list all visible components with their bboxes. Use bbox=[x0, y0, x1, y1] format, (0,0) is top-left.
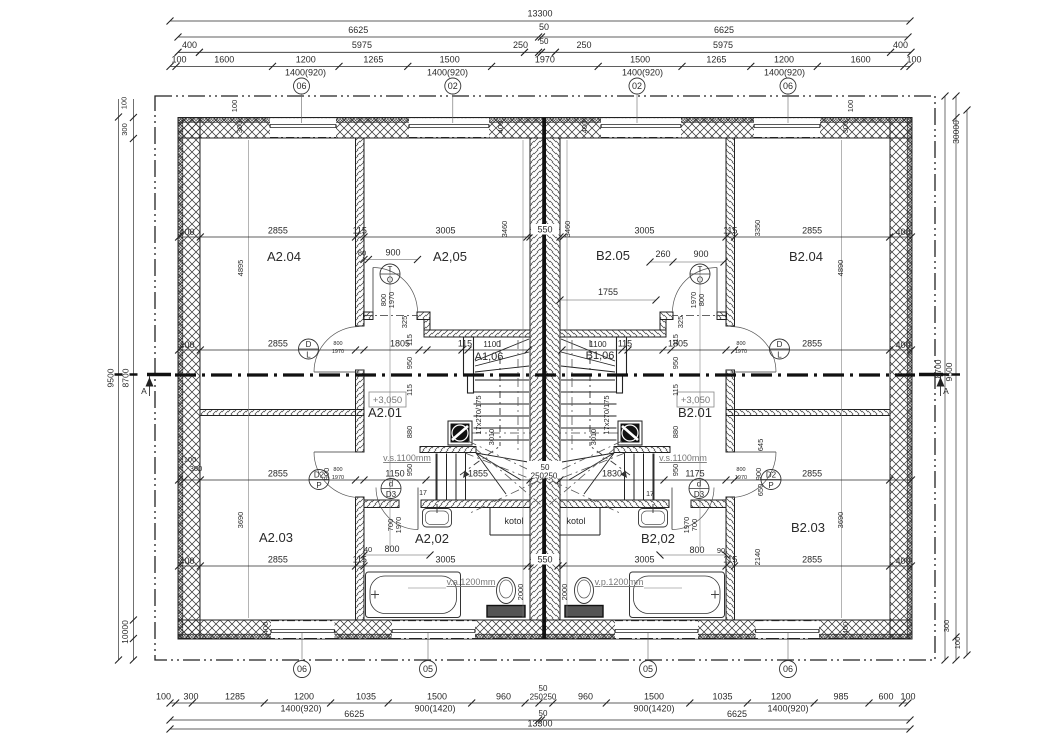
right dim chains bbox=[944, 96, 946, 660]
svg-text:v.a.1200mm: v.a.1200mm bbox=[447, 577, 496, 587]
svg-text:1970: 1970 bbox=[689, 292, 698, 309]
svg-text:4890: 4890 bbox=[836, 260, 845, 277]
top chain detail bbox=[170, 65, 910, 67]
svg-text:1400(920): 1400(920) bbox=[285, 68, 326, 78]
svg-text:550: 550 bbox=[537, 225, 552, 235]
svg-text:1970: 1970 bbox=[332, 475, 344, 481]
svg-text:B2.05: B2.05 bbox=[596, 248, 630, 263]
svg-text:645: 645 bbox=[756, 439, 765, 452]
svg-text:1855: 1855 bbox=[468, 469, 488, 479]
svg-text:900: 900 bbox=[693, 249, 708, 259]
bottom chain 13300 bbox=[170, 728, 910, 730]
dim chain y236 bbox=[179, 236, 530, 238]
svg-text:1600: 1600 bbox=[851, 55, 871, 65]
svg-text:80: 80 bbox=[358, 249, 366, 258]
svg-text:300: 300 bbox=[841, 121, 850, 134]
svg-text:400: 400 bbox=[841, 622, 850, 635]
svg-text:1500: 1500 bbox=[427, 692, 447, 702]
window bottom 05 left bbox=[392, 621, 475, 639]
svg-text:O: O bbox=[697, 276, 703, 285]
svg-text:13300: 13300 bbox=[527, 9, 552, 19]
exterior wall right bbox=[890, 118, 912, 640]
svg-text:1265: 1265 bbox=[706, 55, 726, 65]
svg-text:950: 950 bbox=[405, 464, 414, 477]
svg-text:900(1420): 900(1420) bbox=[633, 704, 674, 714]
wall stairwell top bbox=[424, 330, 530, 337]
svg-text:1400(920): 1400(920) bbox=[764, 68, 805, 78]
svg-text:300: 300 bbox=[183, 692, 198, 702]
svg-text:2855: 2855 bbox=[268, 555, 288, 565]
svg-text:950: 950 bbox=[671, 464, 680, 477]
wall vertical mid bbox=[356, 370, 365, 452]
svg-text:960: 960 bbox=[578, 692, 593, 702]
svg-text:100: 100 bbox=[846, 100, 855, 113]
svg-text:A2.03: A2.03 bbox=[259, 530, 293, 545]
svg-text:400: 400 bbox=[580, 121, 589, 134]
svg-text:1830: 1830 bbox=[602, 469, 622, 479]
svg-text:3010: 3010 bbox=[589, 429, 598, 446]
svg-text:115: 115 bbox=[723, 555, 737, 565]
svg-text:650: 650 bbox=[756, 484, 765, 497]
svg-text:40: 40 bbox=[364, 545, 372, 554]
svg-text:8700: 8700 bbox=[933, 359, 943, 378]
svg-text:115: 115 bbox=[618, 339, 632, 349]
window top 02 right bbox=[601, 118, 681, 137]
svg-text:A: A bbox=[141, 386, 147, 396]
svg-text:400: 400 bbox=[895, 227, 910, 237]
window bottom-left 06 bbox=[271, 621, 335, 639]
wall under stair mid bbox=[420, 447, 476, 453]
interior witness line x247 bbox=[248, 140, 250, 618]
wall vertical lower bbox=[356, 497, 365, 620]
svg-text:1970: 1970 bbox=[735, 349, 747, 355]
svg-text:1265: 1265 bbox=[363, 55, 383, 65]
section mark left bbox=[147, 373, 171, 377]
svg-text:+3,050: +3,050 bbox=[373, 395, 402, 406]
svg-text:3350: 3350 bbox=[753, 220, 762, 237]
window bottom-right 06 bbox=[756, 621, 820, 639]
svg-text:1035: 1035 bbox=[712, 692, 732, 702]
svg-text:1175: 1175 bbox=[685, 469, 704, 479]
bottom chain 6625 bbox=[170, 719, 910, 721]
svg-text:1100: 1100 bbox=[483, 340, 501, 349]
svg-text:900: 900 bbox=[385, 248, 400, 258]
svg-text:05: 05 bbox=[643, 664, 653, 674]
svg-text:3005: 3005 bbox=[435, 555, 455, 565]
svg-text:3005: 3005 bbox=[634, 555, 654, 565]
svg-text:v.s.1100mm: v.s.1100mm bbox=[659, 453, 707, 463]
svg-text:17x270/175: 17x270/175 bbox=[474, 395, 483, 434]
dim chain y566 bbox=[179, 565, 532, 567]
svg-text:1200: 1200 bbox=[774, 55, 794, 65]
svg-text:D: D bbox=[306, 340, 312, 349]
svg-text:D3: D3 bbox=[694, 490, 705, 499]
svg-text:250: 250 bbox=[513, 40, 528, 50]
kotol partition bbox=[489, 508, 491, 536]
svg-text:17: 17 bbox=[419, 490, 427, 497]
svg-text:6625: 6625 bbox=[727, 709, 747, 719]
svg-text:300: 300 bbox=[190, 464, 203, 473]
svg-text:05: 05 bbox=[423, 664, 433, 674]
svg-text:v.p.1200mm: v.p.1200mm bbox=[595, 577, 644, 587]
window top-left 06 bbox=[270, 118, 336, 137]
svg-text:8700: 8700 bbox=[121, 368, 131, 387]
wall vertical A2.04 side upper bbox=[356, 138, 365, 326]
stair lower flight treads bbox=[436, 454, 438, 500]
svg-text:06: 06 bbox=[297, 664, 307, 674]
svg-text:250250: 250250 bbox=[530, 693, 557, 702]
svg-text:100: 100 bbox=[953, 637, 962, 650]
svg-text:2855: 2855 bbox=[802, 226, 822, 236]
svg-text:115: 115 bbox=[458, 339, 472, 349]
svg-text:100: 100 bbox=[184, 455, 197, 464]
svg-text:13300: 13300 bbox=[527, 719, 552, 729]
window top 02 left bbox=[409, 118, 489, 137]
svg-text:950: 950 bbox=[671, 357, 680, 370]
stair treads upper flight bbox=[474, 391, 530, 393]
svg-text:1755: 1755 bbox=[598, 287, 618, 297]
svg-text:v.s.1100mm: v.s.1100mm bbox=[383, 453, 431, 463]
insulation strips bbox=[178, 118, 912, 123]
svg-text:3005: 3005 bbox=[634, 226, 654, 236]
svg-text:400: 400 bbox=[895, 340, 910, 350]
svg-text:D: D bbox=[777, 340, 783, 349]
wall A2.05 bottom upper segment bbox=[364, 312, 374, 320]
wall outer edge dashdot bottom bbox=[178, 638, 912, 640]
svg-text:1970: 1970 bbox=[332, 349, 344, 355]
svg-text:115: 115 bbox=[353, 226, 367, 236]
dim chain y350 bbox=[179, 349, 528, 351]
svg-text:1970: 1970 bbox=[535, 55, 555, 65]
svg-text:1150: 1150 bbox=[385, 469, 404, 479]
svg-text:1500: 1500 bbox=[644, 692, 664, 702]
bathtub bbox=[366, 572, 461, 618]
svg-text:+3,050: +3,050 bbox=[681, 395, 710, 406]
svg-text:550: 550 bbox=[537, 555, 552, 565]
top chain 5975 bbox=[178, 51, 911, 53]
svg-text:d: d bbox=[389, 480, 393, 489]
svg-text:800: 800 bbox=[689, 545, 704, 555]
stair winder fan lower bbox=[476, 453, 528, 462]
window top-right 06 bbox=[754, 118, 820, 137]
svg-text:B1,06: B1,06 bbox=[586, 350, 615, 362]
svg-text:2000: 2000 bbox=[560, 584, 569, 601]
svg-text:O: O bbox=[387, 276, 393, 285]
svg-text:115: 115 bbox=[671, 334, 680, 346]
svg-text:4895: 4895 bbox=[236, 260, 245, 277]
window bottom 05 right bbox=[615, 621, 698, 639]
svg-text:1400(920): 1400(920) bbox=[767, 704, 808, 714]
exterior wall top bbox=[178, 118, 912, 139]
wall hall-stair pier bbox=[464, 337, 474, 375]
svg-text:900(1420): 900(1420) bbox=[414, 704, 455, 714]
svg-text:06: 06 bbox=[296, 81, 306, 91]
window ref circles top bbox=[294, 78, 310, 94]
svg-text:325: 325 bbox=[676, 316, 685, 329]
svg-text:9500: 9500 bbox=[106, 368, 116, 387]
svg-text:10000: 10000 bbox=[120, 620, 130, 644]
level labels bbox=[369, 392, 406, 407]
svg-text:2855: 2855 bbox=[802, 339, 822, 349]
svg-text:kotol: kotol bbox=[504, 516, 523, 526]
svg-text:30000: 30000 bbox=[951, 120, 961, 144]
svg-text:2855: 2855 bbox=[268, 226, 288, 236]
svg-text:100: 100 bbox=[900, 692, 915, 702]
svg-text:950: 950 bbox=[405, 357, 414, 370]
washbasin bbox=[423, 509, 452, 528]
svg-text:800: 800 bbox=[384, 544, 399, 554]
svg-text:06: 06 bbox=[783, 664, 793, 674]
svg-text:115: 115 bbox=[723, 226, 737, 236]
door bathroom (d) bbox=[417, 488, 419, 530]
svg-text:400: 400 bbox=[895, 556, 910, 566]
svg-text:3460: 3460 bbox=[500, 221, 509, 238]
exterior wall bottom bbox=[178, 620, 912, 639]
svg-text:115: 115 bbox=[353, 555, 367, 565]
svg-text:3690: 3690 bbox=[836, 512, 845, 529]
door tag circles bbox=[299, 339, 319, 359]
svg-text:2855: 2855 bbox=[268, 469, 288, 479]
svg-text:1970: 1970 bbox=[387, 292, 396, 309]
svg-text:100: 100 bbox=[230, 100, 239, 113]
cross guides between halves bbox=[468, 441, 622, 514]
svg-text:1400(920): 1400(920) bbox=[280, 704, 321, 714]
svg-text:400: 400 bbox=[179, 556, 194, 566]
svg-text:B2.04: B2.04 bbox=[789, 249, 823, 264]
svg-text:3690: 3690 bbox=[236, 512, 245, 529]
svg-text:6625: 6625 bbox=[348, 25, 368, 35]
svg-text:L: L bbox=[306, 351, 311, 360]
svg-text:800: 800 bbox=[736, 467, 745, 473]
svg-text:2855: 2855 bbox=[802, 469, 822, 479]
toilet cistern bar bbox=[487, 606, 525, 618]
top chain 6625 bbox=[178, 36, 908, 38]
svg-text:100: 100 bbox=[171, 55, 186, 65]
svg-text:800: 800 bbox=[697, 294, 706, 307]
toilet bowl bbox=[497, 578, 516, 604]
svg-text:800: 800 bbox=[333, 341, 342, 347]
svg-text:P: P bbox=[316, 481, 321, 490]
svg-text:P: P bbox=[768, 481, 773, 490]
wall bathroom top right part bbox=[421, 500, 530, 508]
dim chain y480 bbox=[179, 479, 530, 481]
svg-text:1600: 1600 bbox=[214, 55, 234, 65]
witness line x390 bbox=[389, 268, 391, 548]
svg-text:5975: 5975 bbox=[713, 40, 733, 50]
bottom ref circles bbox=[294, 661, 311, 678]
svg-text:1035: 1035 bbox=[356, 692, 376, 702]
party wall half bbox=[530, 138, 545, 620]
bottom chain detail bbox=[170, 702, 908, 704]
party wall core bbox=[542, 118, 546, 640]
svg-text:D3: D3 bbox=[386, 490, 397, 499]
dim 800 bathroom bbox=[364, 554, 430, 556]
svg-text:3010: 3010 bbox=[487, 429, 496, 446]
wall step connector bbox=[424, 320, 430, 331]
svg-text:9500: 9500 bbox=[944, 362, 954, 381]
section line A-A bbox=[175, 373, 915, 376]
top chain 13300 bbox=[170, 20, 910, 22]
door A2.03 (D2/P) bbox=[314, 451, 360, 453]
door A2.05 (T) bbox=[372, 268, 374, 313]
property boundary dash-dot bbox=[155, 96, 935, 660]
svg-text:400: 400 bbox=[179, 227, 194, 237]
svg-text:400: 400 bbox=[261, 622, 270, 635]
svg-text:3460: 3460 bbox=[563, 221, 572, 238]
svg-text:260: 260 bbox=[655, 249, 670, 259]
svg-text:1500: 1500 bbox=[630, 55, 650, 65]
stair walk line bbox=[499, 340, 501, 446]
svg-text:880: 880 bbox=[671, 426, 680, 439]
svg-text:50: 50 bbox=[541, 463, 550, 472]
section mark right bbox=[919, 373, 943, 377]
svg-text:800: 800 bbox=[333, 467, 342, 473]
svg-text:50: 50 bbox=[539, 22, 549, 32]
svg-text:115: 115 bbox=[671, 384, 680, 396]
svg-text:90: 90 bbox=[717, 546, 725, 555]
stair winder fan upper bbox=[475, 339, 529, 361]
witness line x523 bbox=[522, 140, 524, 618]
left dim chains bbox=[118, 99, 120, 660]
svg-text:02: 02 bbox=[632, 81, 642, 91]
svg-text:400: 400 bbox=[182, 40, 197, 50]
svg-text:1285: 1285 bbox=[225, 692, 245, 702]
svg-text:2000: 2000 bbox=[516, 584, 525, 601]
svg-text:17x270/175: 17x270/175 bbox=[602, 395, 611, 434]
svg-text:1970: 1970 bbox=[682, 517, 691, 534]
svg-text:kotol: kotol bbox=[566, 516, 585, 526]
svg-text:1400(920): 1400(920) bbox=[622, 68, 663, 78]
svg-text:880: 880 bbox=[405, 426, 414, 439]
exterior wall left bbox=[178, 118, 200, 640]
svg-text:400: 400 bbox=[179, 340, 194, 350]
svg-text:960: 960 bbox=[496, 692, 511, 702]
svg-text:T: T bbox=[698, 265, 703, 274]
svg-text:250: 250 bbox=[576, 40, 591, 50]
svg-text:1400(920): 1400(920) bbox=[427, 68, 468, 78]
svg-text:A1,06: A1,06 bbox=[475, 351, 504, 363]
svg-text:2140: 2140 bbox=[753, 549, 762, 566]
svg-text:A2.04: A2.04 bbox=[267, 249, 301, 264]
svg-text:06: 06 bbox=[783, 81, 793, 91]
svg-text:400: 400 bbox=[496, 121, 505, 134]
svg-text:1970: 1970 bbox=[735, 475, 747, 481]
svg-text:50: 50 bbox=[539, 684, 548, 693]
svg-text:A2,02: A2,02 bbox=[415, 531, 449, 546]
stair dashdot guides bbox=[517, 340, 519, 450]
svg-text:1970: 1970 bbox=[394, 517, 403, 534]
wall bathroom top left part bbox=[364, 500, 399, 508]
svg-text:800: 800 bbox=[736, 341, 745, 347]
svg-text:700: 700 bbox=[690, 519, 699, 532]
svg-text:600: 600 bbox=[878, 692, 893, 702]
svg-text:1200: 1200 bbox=[771, 692, 791, 702]
svg-text:400: 400 bbox=[893, 40, 908, 50]
svg-text:1500: 1500 bbox=[440, 55, 460, 65]
svg-text:985: 985 bbox=[833, 692, 848, 702]
svg-text:100: 100 bbox=[120, 97, 129, 110]
svg-text:900: 900 bbox=[754, 468, 763, 481]
door A2.04 (D/L) bbox=[314, 371, 360, 373]
svg-text:115: 115 bbox=[405, 384, 414, 396]
svg-text:2855: 2855 bbox=[268, 339, 288, 349]
svg-text:A2,05: A2,05 bbox=[433, 249, 467, 264]
svg-text:1100: 1100 bbox=[589, 340, 607, 349]
svg-text:02: 02 bbox=[448, 81, 458, 91]
svg-text:300: 300 bbox=[120, 123, 129, 136]
wall between A2.04 and A2.03 bbox=[200, 410, 364, 416]
svg-text:100: 100 bbox=[906, 55, 921, 65]
svg-text:325: 325 bbox=[400, 316, 409, 329]
svg-text:50: 50 bbox=[540, 37, 549, 46]
door opening dashdot A2.05 bbox=[364, 315, 418, 317]
svg-text:5975: 5975 bbox=[352, 40, 372, 50]
svg-text:2855: 2855 bbox=[802, 555, 822, 565]
svg-text:300: 300 bbox=[942, 620, 951, 633]
svg-text:50: 50 bbox=[539, 709, 548, 718]
svg-text:B2.03: B2.03 bbox=[791, 520, 825, 535]
svg-text:250250: 250250 bbox=[531, 472, 558, 481]
svg-text:1200: 1200 bbox=[296, 55, 316, 65]
svg-text:A: A bbox=[943, 386, 949, 396]
svg-text:900: 900 bbox=[322, 468, 331, 481]
svg-text:1200: 1200 bbox=[294, 692, 314, 702]
svg-text:d: d bbox=[697, 480, 701, 489]
svg-text:B2,02: B2,02 bbox=[641, 531, 675, 546]
svg-text:L: L bbox=[777, 351, 782, 360]
wall outer edge dashdot top bbox=[178, 117, 912, 119]
chimney block bbox=[448, 421, 472, 445]
svg-text:6625: 6625 bbox=[344, 709, 364, 719]
svg-text:3005: 3005 bbox=[435, 226, 455, 236]
svg-text:100: 100 bbox=[156, 692, 171, 702]
svg-text:115: 115 bbox=[405, 334, 414, 346]
svg-text:6625: 6625 bbox=[714, 25, 734, 35]
svg-text:17: 17 bbox=[646, 491, 654, 498]
svg-text:300: 300 bbox=[235, 121, 244, 134]
svg-text:T: T bbox=[388, 265, 393, 274]
svg-text:D2: D2 bbox=[766, 471, 777, 480]
